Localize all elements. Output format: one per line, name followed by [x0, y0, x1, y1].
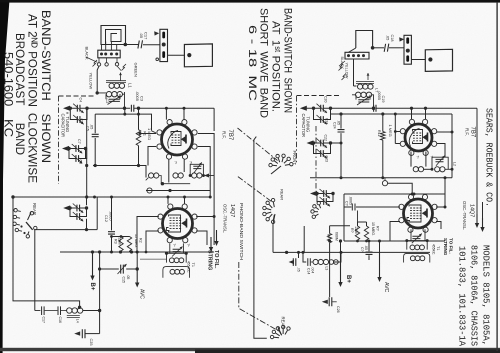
speaker box SP2 — [425, 49, 452, 71]
loop antenna LA2 — [356, 31, 373, 49]
svg-text:6 - 18 MC: 6 - 18 MC — [246, 25, 258, 101]
wire osc left pins to grid components — [137, 217, 159, 253]
svg-text:C17: C17 — [144, 32, 149, 40]
capacitor C26 — [329, 252, 331, 297]
wire left pins — [140, 134, 156, 166]
wire bar contact to coils — [354, 59, 357, 86]
wire strip to speaker box — [168, 54, 185, 56]
trimmer capacitor C2 — [109, 99, 120, 101]
svg-text:C24: C24 — [332, 122, 336, 129]
svg-text:R.F.: R.F. — [465, 128, 470, 136]
svg-text:15 MEG.: 15 MEG. — [371, 222, 375, 236]
coil L3 secondary — [192, 173, 197, 178]
svg-text:R3: R3 — [113, 239, 117, 244]
tuning gang dash inner right — [315, 126, 317, 191]
bolt black right — [339, 64, 344, 71]
svg-text:680M: 680M — [334, 232, 338, 241]
phono jack node left — [147, 188, 152, 193]
svg-text:STRING: STRING — [443, 238, 448, 256]
antenna coil L1 secondary — [106, 92, 111, 97]
wire trimmer column — [86, 108, 88, 197]
svg-text:455 KC.: 455 KC. — [187, 261, 191, 273]
wire C17 to terminal strip — [143, 44, 160, 46]
coil core arrow L1 — [120, 73, 122, 81]
svg-text:C5: C5 — [85, 126, 89, 131]
wire pair1 to bus — [66, 109, 87, 114]
wire rear arm drop — [34, 230, 36, 311]
svg-text:540-1600 KC: 540-1600 KC — [2, 52, 16, 137]
wire right column — [451, 114, 453, 178]
svg-text:C4: C4 — [79, 98, 83, 103]
svg-text:C26: C26 — [336, 306, 340, 313]
wire bus1 right segment — [134, 107, 214, 109]
connector bar CB2 — [345, 52, 369, 59]
wires loop to bar — [102, 42, 117, 51]
arrow at strip top — [154, 31, 159, 35]
node coil to bus — [123, 107, 126, 110]
wire contact to L1 — [97, 66, 99, 93]
tuning box top dash left — [59, 95, 96, 97]
svg-text:OSC.-TRANSL.: OSC.-TRANSL. — [223, 204, 228, 233]
svg-text:B+: B+ — [89, 283, 95, 291]
wire V4 right pins — [436, 207, 445, 229]
svg-text:C19: C19 — [381, 96, 385, 103]
tube V1 7B7 RF — [162, 124, 193, 155]
switch contacts under bar — [97, 63, 100, 66]
wire strip to speaker box right — [411, 59, 425, 61]
rotary switch REAR left wafer — [14, 209, 17, 212]
svg-text:C21: C21 — [324, 118, 328, 124]
resistor R2 15 MEG — [127, 237, 131, 252]
svg-text:STRING: STRING — [206, 250, 212, 270]
capacitor C16 — [58, 306, 61, 315]
phono band switch dash to rear wafer upper — [238, 177, 272, 202]
wire interstage tie — [162, 183, 190, 185]
resistor R1 1 MEG — [138, 108, 140, 130]
antenna terminal strip TS1 — [160, 29, 168, 61]
svg-text:R?: R? — [350, 228, 354, 233]
svg-text:14Q7: 14Q7 — [469, 204, 475, 217]
rotary switch FRONT right — [273, 164, 278, 166]
wire bus3 cathode return — [93, 166, 146, 178]
tuning gang dash line right — [296, 96, 298, 163]
oscillator antenna coil L7 primary — [356, 82, 374, 84]
wire L1 bus link — [124, 108, 126, 114]
svg-text:REAR: REAR — [281, 317, 286, 329]
wire busR1 right segment — [376, 107, 477, 109]
capacitor C18 .05 — [384, 44, 389, 52]
svg-text:15 MEG.: 15 MEG. — [134, 234, 138, 248]
wire C18 to strip — [389, 47, 404, 49]
connector bar CB1 — [98, 50, 120, 58]
oscillator coil trimmer right — [432, 157, 448, 169]
capacitor C17 .05 — [138, 40, 143, 48]
wire V4 grid stubs — [409, 193, 427, 196]
wire busR1 left segment — [331, 107, 372, 109]
wire osc grid stubs — [168, 197, 185, 204]
capacitor C17b — [42, 306, 45, 315]
wire loop to C18 — [373, 47, 384, 49]
svg-text:455KC.: 455KC. — [432, 244, 436, 255]
svg-text:.05: .05 — [297, 267, 301, 272]
wire T1 tie left — [140, 258, 166, 260]
svg-text:R11: R11 — [377, 130, 381, 137]
T2 secondary bracket — [404, 253, 430, 262]
svg-text:C2: C2 — [105, 99, 109, 104]
interstage coil L8 — [411, 152, 426, 167]
wire V4 left pins grid components — [344, 207, 400, 241]
wire V3 screen — [437, 144, 446, 158]
tuning box top dash right — [297, 95, 341, 97]
wire left tall loop — [13, 197, 80, 307]
wire busR4 drops — [344, 178, 445, 210]
svg-text:BAND-SWITCH SHOWN: BAND-SWITCH SHOWN — [39, 10, 53, 163]
svg-text:C?: C? — [360, 247, 364, 252]
capacitor C on busR6 — [298, 252, 300, 258]
wire avc feed line — [100, 268, 138, 270]
svg-text:CAPACITOR: CAPACITOR — [301, 114, 306, 138]
svg-text:L4: L4 — [76, 319, 80, 323]
svg-text:C7: C7 — [77, 139, 81, 144]
svg-text:C17: C17 — [42, 317, 46, 323]
svg-text:.05: .05 — [126, 275, 130, 280]
rotary switch REAR right wafer — [272, 215, 275, 220]
wire L8 to trimmer — [424, 168, 432, 170]
coil core arrow right — [367, 73, 369, 80]
phono band switch dash to rear wafer — [239, 262, 280, 332]
capacitor C12 .0005 — [111, 197, 113, 252]
svg-text:C18: C18 — [390, 35, 394, 42]
resistor R3 right 22M — [357, 222, 359, 226]
svg-text:R4: R4 — [326, 234, 330, 239]
svg-text:C?: C? — [344, 201, 348, 206]
wire grid tie — [112, 236, 130, 238]
wire cathode column with C5 — [94, 114, 96, 165]
antenna coil L1 primary — [106, 81, 126, 83]
wire grid cap stubs — [166, 108, 184, 119]
svg-text:101.833, 101.833-1A: 101.833, 101.833-1A — [457, 246, 468, 346]
resistor R2 right 15MEG — [366, 222, 368, 226]
T1 secondary bracket — [163, 267, 190, 278]
svg-text:CAPACITOR: CAPACITOR — [60, 114, 65, 138]
wire osc cathode drop — [96, 197, 98, 230]
wire rear switch bus — [35, 229, 97, 231]
arrow B+ right — [340, 241, 342, 252]
phono band switch dash to front wafer — [238, 128, 278, 161]
capacitor C5 .05 — [92, 134, 99, 136]
svg-text:C23: C23 — [324, 156, 328, 162]
trimmer pair C4 C6 tuning section — [70, 107, 87, 109]
svg-text:C25: C25 — [89, 339, 93, 346]
scan border bottom bar — [0, 348, 500, 351]
scan border left black bar — [0, 0, 10, 353]
svg-text:YELLOW: YELLOW — [345, 63, 349, 79]
svg-text:BAND-SWITCH SHOWN: BAND-SWITCH SHOWN — [282, 8, 294, 113]
trimmer pair C22 C23 — [314, 142, 331, 144]
trimmer pair C7 C8 tuning section — [69, 148, 86, 150]
svg-text:14Q7: 14Q7 — [229, 204, 235, 217]
trimmer pair C20 C21 — [314, 107, 331, 109]
wire osc grid feed — [388, 183, 413, 194]
capacitor C12 right .0005 — [352, 204, 355, 211]
capacitor C24 .05 — [338, 130, 345, 132]
tube V3 7B7 RF right — [405, 124, 432, 151]
svg-text:AVC: AVC — [139, 289, 145, 299]
oscillator padder coil cluster right — [303, 252, 306, 262]
svg-text:C20: C20 — [323, 96, 327, 102]
wire bus1 to plate column — [213, 108, 215, 131]
wire wafer drop right — [303, 226, 305, 252]
svg-text:FRONT: FRONT — [292, 151, 297, 166]
svg-text:TO FIL.: TO FIL. — [449, 238, 454, 254]
svg-text:C6: C6 — [80, 119, 84, 124]
coil L4 — [35, 310, 41, 312]
wire plate to right bus — [198, 134, 214, 246]
svg-text:L1: L1 — [127, 83, 132, 88]
svg-text:GREEN: GREEN — [134, 63, 139, 77]
phono jack node — [382, 181, 387, 186]
scan texture — [0, 0, 1, 1]
svg-text:L2: L2 — [453, 162, 457, 166]
arrow AVC right — [379, 241, 381, 252]
scan border right line — [496, 2, 497, 351]
scan border top line — [0, 0, 500, 3]
svg-text:C15: C15 — [121, 277, 125, 283]
wire bus4 AVC line — [12, 196, 210, 198]
svg-text:.0005: .0005 — [377, 91, 381, 101]
svg-text:OSC.-TRANSL.: OSC.-TRANSL. — [462, 201, 467, 230]
trimmer capacitor C2 right — [358, 100, 369, 102]
capacitor C25 — [74, 331, 80, 335]
arrows to fil string left — [210, 237, 212, 248]
svg-text:L3: L3 — [325, 267, 329, 271]
svg-text:C14: C14 — [306, 268, 310, 274]
coil L9 — [435, 167, 440, 172]
wire bus2 grid line — [95, 114, 151, 130]
arrows fil string right — [476, 214, 478, 224]
svg-text:C22: C22 — [323, 135, 327, 141]
wire V3 grid stubs — [412, 108, 426, 119]
svg-text:R.F.: R.F. — [222, 131, 227, 139]
svg-text:.05: .05 — [386, 35, 390, 40]
node loop output — [124, 43, 128, 47]
svg-text:SEARS, ROEBUCK & CO.: SEARS, ROEBUCK & CO. — [484, 108, 495, 207]
wire bplus avc column — [99, 252, 101, 334]
wire busR5 — [344, 240, 445, 242]
wire V1 bottom pins — [169, 159, 184, 182]
arrow B+ — [92, 252, 94, 277]
arrow AVC — [136, 269, 138, 284]
svg-text:C16: C16 — [58, 317, 62, 323]
svg-text:R2: R2 — [138, 238, 142, 243]
node L1 top — [96, 91, 99, 94]
IF transformer T2 455KC — [411, 229, 425, 240]
resistor R4 680M — [330, 226, 350, 234]
svg-text:.05: .05 — [139, 33, 144, 39]
wire fil feed drop — [476, 108, 478, 214]
tuning gang dash line left — [58, 96, 60, 184]
capacitor C15 right .05 — [368, 241, 370, 251]
loop antenna LA1 — [101, 26, 126, 45]
speaker box SP1 — [184, 44, 212, 67]
wire cathode column C24 — [340, 114, 342, 178]
svg-text:8106, 8106A, CHASSIS: 8106, 8106A, CHASSIS — [469, 245, 480, 346]
node speaker terminal right — [428, 57, 432, 61]
svg-text:AVC: AVC — [383, 282, 389, 293]
svg-text:REAR: REAR — [32, 203, 37, 215]
node coil bus right — [372, 107, 375, 110]
node loop output right — [371, 46, 375, 50]
svg-text:C8: C8 — [79, 160, 83, 165]
wire busR3 — [310, 177, 452, 179]
tube V2 14Q7 converter — [163, 209, 193, 239]
coil L7 secondary — [356, 92, 361, 97]
svg-text:REAR: REAR — [280, 189, 285, 200]
resistor R3 22M — [119, 237, 123, 252]
interstage coil L3 primary — [149, 173, 154, 178]
svg-text:7B7: 7B7 — [227, 130, 233, 141]
svg-text:TO FIL.: TO FIL. — [213, 250, 219, 269]
IF transformer T1 455KC — [170, 243, 184, 249]
wire band switch solid link — [254, 137, 267, 339]
capacitor C19 .0005 series — [374, 105, 376, 112]
wire V3 plate to right — [437, 131, 453, 133]
wire V3 left pin feed — [395, 114, 400, 144]
small wafer fan right — [316, 214, 319, 216]
wire screen to right bus — [198, 147, 210, 198]
wire avc mid bus — [146, 190, 210, 192]
svg-text:1 MEG: 1 MEG — [388, 125, 393, 137]
wire bus1 left segment — [87, 107, 131, 109]
wire osc right pins — [196, 217, 214, 246]
wire busR6 — [273, 251, 430, 253]
svg-text:YELLOW: YELLOW — [89, 73, 94, 90]
node speaker terminal — [187, 53, 191, 57]
wire loop to C17 — [126, 44, 139, 46]
oscillator coil trimmer box — [190, 164, 203, 175]
tube V4 14Q7 right — [404, 199, 433, 228]
bolt black contact — [93, 60, 98, 67]
svg-text:MODELS 8105, 8105A,: MODELS 8105, 8105A, — [481, 245, 492, 346]
wire loop to bar — [349, 48, 356, 52]
wire busR2 grid line — [331, 113, 452, 115]
capacitor C15 .05 — [121, 265, 124, 274]
capacitor C3 .0005 series — [131, 105, 133, 112]
wire avc drop — [136, 252, 138, 269]
svg-text:C3: C3 — [139, 96, 144, 102]
svg-text:C12: C12 — [104, 215, 108, 222]
svg-text:AT 1ˢᵗ POSITION.: AT 1ˢᵗ POSITION. — [270, 21, 282, 112]
svg-text:SHORT WAVE BAND: SHORT WAVE BAND — [258, 8, 270, 118]
terminal strip TS2 — [404, 35, 411, 64]
bolt green contact — [122, 64, 127, 71]
wire bus6 B+ line — [60, 251, 214, 253]
svg-text:.0005: .0005 — [135, 91, 140, 102]
wire busR4 — [344, 193, 445, 195]
svg-text:B+: B+ — [345, 275, 351, 283]
svg-text:R?: R? — [375, 226, 379, 231]
svg-text:.0005: .0005 — [109, 211, 113, 221]
wire pairs to bus right — [307, 108, 342, 143]
trimmer pair near rear wafer — [317, 193, 333, 195]
svg-text:PHONO-BAND SWITCH: PHONO-BAND SWITCH — [239, 203, 244, 260]
trimmer pair C10 C11 — [70, 207, 87, 209]
rotary switch REAR bottom — [274, 336, 279, 339]
resistor R11 1 MEG — [382, 114, 384, 132]
